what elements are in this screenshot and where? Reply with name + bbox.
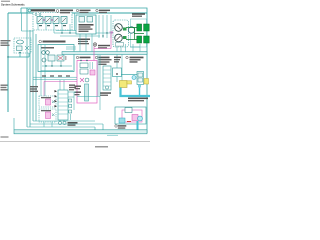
sensor box <box>113 68 122 77</box>
pump arrows <box>117 26 121 41</box>
pump label 5 <box>76 9 78 11</box>
junction dots on bus <box>61 32 62 33</box>
pump dashed box <box>113 20 129 47</box>
node icon 1 <box>28 9 31 12</box>
port bus lines <box>33 77 77 90</box>
servo valve symbol <box>48 55 55 61</box>
hydrostatic pump label <box>39 40 42 43</box>
wire to valve <box>121 74 137 76</box>
magenta inlet stub <box>110 31 114 33</box>
spring zigzag <box>65 56 67 60</box>
wire risers to pump <box>99 15 111 38</box>
cyan branch down <box>139 87 141 96</box>
swash valve symbol <box>57 55 64 61</box>
motor green box 1b <box>144 24 150 31</box>
wire top bus <box>21 8 147 133</box>
solenoid valve a <box>37 17 43 24</box>
yellow link <box>127 81 132 84</box>
filter oval <box>17 40 24 44</box>
label block 8 <box>69 85 75 86</box>
pink cross valve <box>80 78 84 82</box>
header doc number text <box>1 1 10 2</box>
right text block labels <box>99 59 112 60</box>
transmission text <box>79 24 94 26</box>
gear selector valve dashed box <box>33 13 72 31</box>
stack inlet arrows <box>55 90 58 107</box>
motor green box 2a <box>137 36 142 43</box>
orifice circles <box>35 14 37 16</box>
svg-text:System Schematic: System Schematic <box>1 2 25 6</box>
red mark <box>127 121 131 123</box>
pump drops to band <box>117 44 126 52</box>
reducing valve squares <box>138 73 143 77</box>
inner label <box>41 47 54 49</box>
yellow block main <box>120 81 128 88</box>
cell springs <box>39 25 42 26</box>
cyan circle <box>132 76 136 80</box>
outer enclosure box <box>8 13 147 112</box>
motor green box 2b <box>144 36 150 43</box>
pump circle small <box>42 51 46 55</box>
pink manifold box <box>77 61 97 104</box>
aux labels left of pipe <box>75 86 82 87</box>
wire left return <box>8 53 29 57</box>
pump circle 2 <box>115 34 123 42</box>
wire manifold bottom <box>77 96 100 98</box>
filter element <box>17 46 23 51</box>
high pressure label <box>115 125 117 127</box>
wire drops from gear valve <box>38 24 70 34</box>
magenta control line <box>94 33 113 61</box>
outlet label left <box>114 57 121 59</box>
pump drive label <box>60 10 73 12</box>
solenoid valve c <box>53 17 59 24</box>
pump cluster enclosure <box>131 19 147 47</box>
bottom right assembly box <box>115 107 146 124</box>
valve arrows <box>38 18 66 22</box>
reducing valve box <box>137 72 144 85</box>
valve cross <box>58 56 63 60</box>
dashed box lower 2 <box>39 109 56 122</box>
footer text <box>1 136 9 137</box>
aux circle <box>105 86 108 89</box>
filter outlet dot <box>19 52 21 54</box>
gear selector valve label <box>31 9 55 11</box>
control valve label <box>95 56 97 58</box>
motor green box 1a <box>137 24 142 31</box>
charge pump circle <box>128 27 134 33</box>
band drop to sensor <box>117 55 122 82</box>
stack stripes <box>58 94 68 114</box>
left margin label <box>1 40 11 41</box>
pump port green a <box>123 28 127 31</box>
charge drops to band <box>80 34 92 52</box>
right mid label <box>98 45 110 47</box>
wire right risers <box>98 55 100 110</box>
filter dashed box <box>14 38 31 53</box>
center text label col <box>30 86 38 87</box>
left border lower <box>7 57 9 112</box>
bottom band <box>14 130 147 134</box>
teal circle br <box>138 116 143 121</box>
pink valve symbol <box>132 115 138 121</box>
wire riser mid <box>74 13 76 31</box>
pressure reducing label <box>126 56 128 58</box>
manifold valve 1 <box>80 63 88 68</box>
wire pump to motors 1 <box>126 28 137 40</box>
port tags <box>42 75 46 76</box>
pump circle small b <box>46 51 50 55</box>
bottom return lines <box>27 121 103 130</box>
hydraulic pump label right <box>132 13 145 15</box>
motor return drops <box>130 44 140 52</box>
band tail <box>107 134 118 136</box>
sensor dot <box>116 73 118 75</box>
orifice cross icon <box>93 43 97 47</box>
aux valve tall box <box>103 66 111 90</box>
manifold inner wires <box>90 62 93 69</box>
wire mid risers <box>27 8 36 127</box>
wire sensor down <box>116 77 118 83</box>
stack port squares <box>69 99 72 102</box>
aux stripes <box>103 70 111 86</box>
relief valve b <box>87 17 93 23</box>
riser dots <box>102 35 103 36</box>
cyan mark below valve <box>138 85 141 88</box>
reservoir label <box>76 56 78 58</box>
cyan pipe L <box>121 88 151 97</box>
box drops <box>44 120 64 127</box>
pink element 2 <box>46 112 51 119</box>
bottom right note <box>128 98 148 100</box>
left label mid <box>1 85 8 86</box>
suction band <box>62 52 147 55</box>
transmission control box <box>76 15 96 34</box>
cyan box in assembly <box>119 118 125 123</box>
wire riser corner left <box>22 13 34 31</box>
junction dot <box>7 56 9 58</box>
pump bottom element <box>116 43 124 47</box>
servo circle <box>42 58 46 62</box>
wire bus under gear valve <box>54 31 113 37</box>
pink element 1 <box>46 99 51 105</box>
dashed box lower 1 <box>39 96 56 107</box>
solenoid valve d <box>61 17 67 24</box>
band left riser <box>13 118 15 130</box>
magenta pilot dots <box>43 19 44 20</box>
bottom mid label <box>68 122 78 124</box>
inner wires <box>41 47 77 71</box>
label above assembly <box>100 92 111 94</box>
cyan drop pipe <box>137 121 139 131</box>
pump drive label icon <box>56 10 59 13</box>
box2 label <box>41 110 51 111</box>
pink assembly frame <box>122 110 142 122</box>
manifold valve 2 <box>80 69 88 74</box>
solenoid valve b <box>45 17 51 24</box>
footer rule <box>0 140 150 142</box>
yellow right piece <box>144 79 149 85</box>
relief valve a <box>79 17 85 23</box>
inner junction dots <box>45 65 46 66</box>
wire riser left of gear box <box>21 8 27 13</box>
teal mark 1 <box>52 101 55 104</box>
gauge circles <box>58 121 61 124</box>
box1 label <box>41 97 51 98</box>
manifold top dots <box>80 60 81 61</box>
wire green link <box>134 28 144 40</box>
stack valve box <box>58 90 68 120</box>
footer center text <box>95 146 108 148</box>
vertical pale pipe <box>85 84 89 101</box>
pump circle 1 <box>115 24 123 32</box>
small white valve <box>125 108 132 113</box>
pink pilot line <box>44 82 77 100</box>
descending pair wires <box>41 45 45 96</box>
teal mark 2 <box>52 114 55 117</box>
pump port green b <box>123 36 127 39</box>
pink small box <box>90 70 95 75</box>
filter mark <box>25 46 29 50</box>
check circle <box>85 78 89 82</box>
stack right links <box>68 92 76 120</box>
charge pump label block <box>78 39 90 41</box>
hydrostatic pump box <box>38 45 74 72</box>
charge label 6 <box>96 9 98 11</box>
